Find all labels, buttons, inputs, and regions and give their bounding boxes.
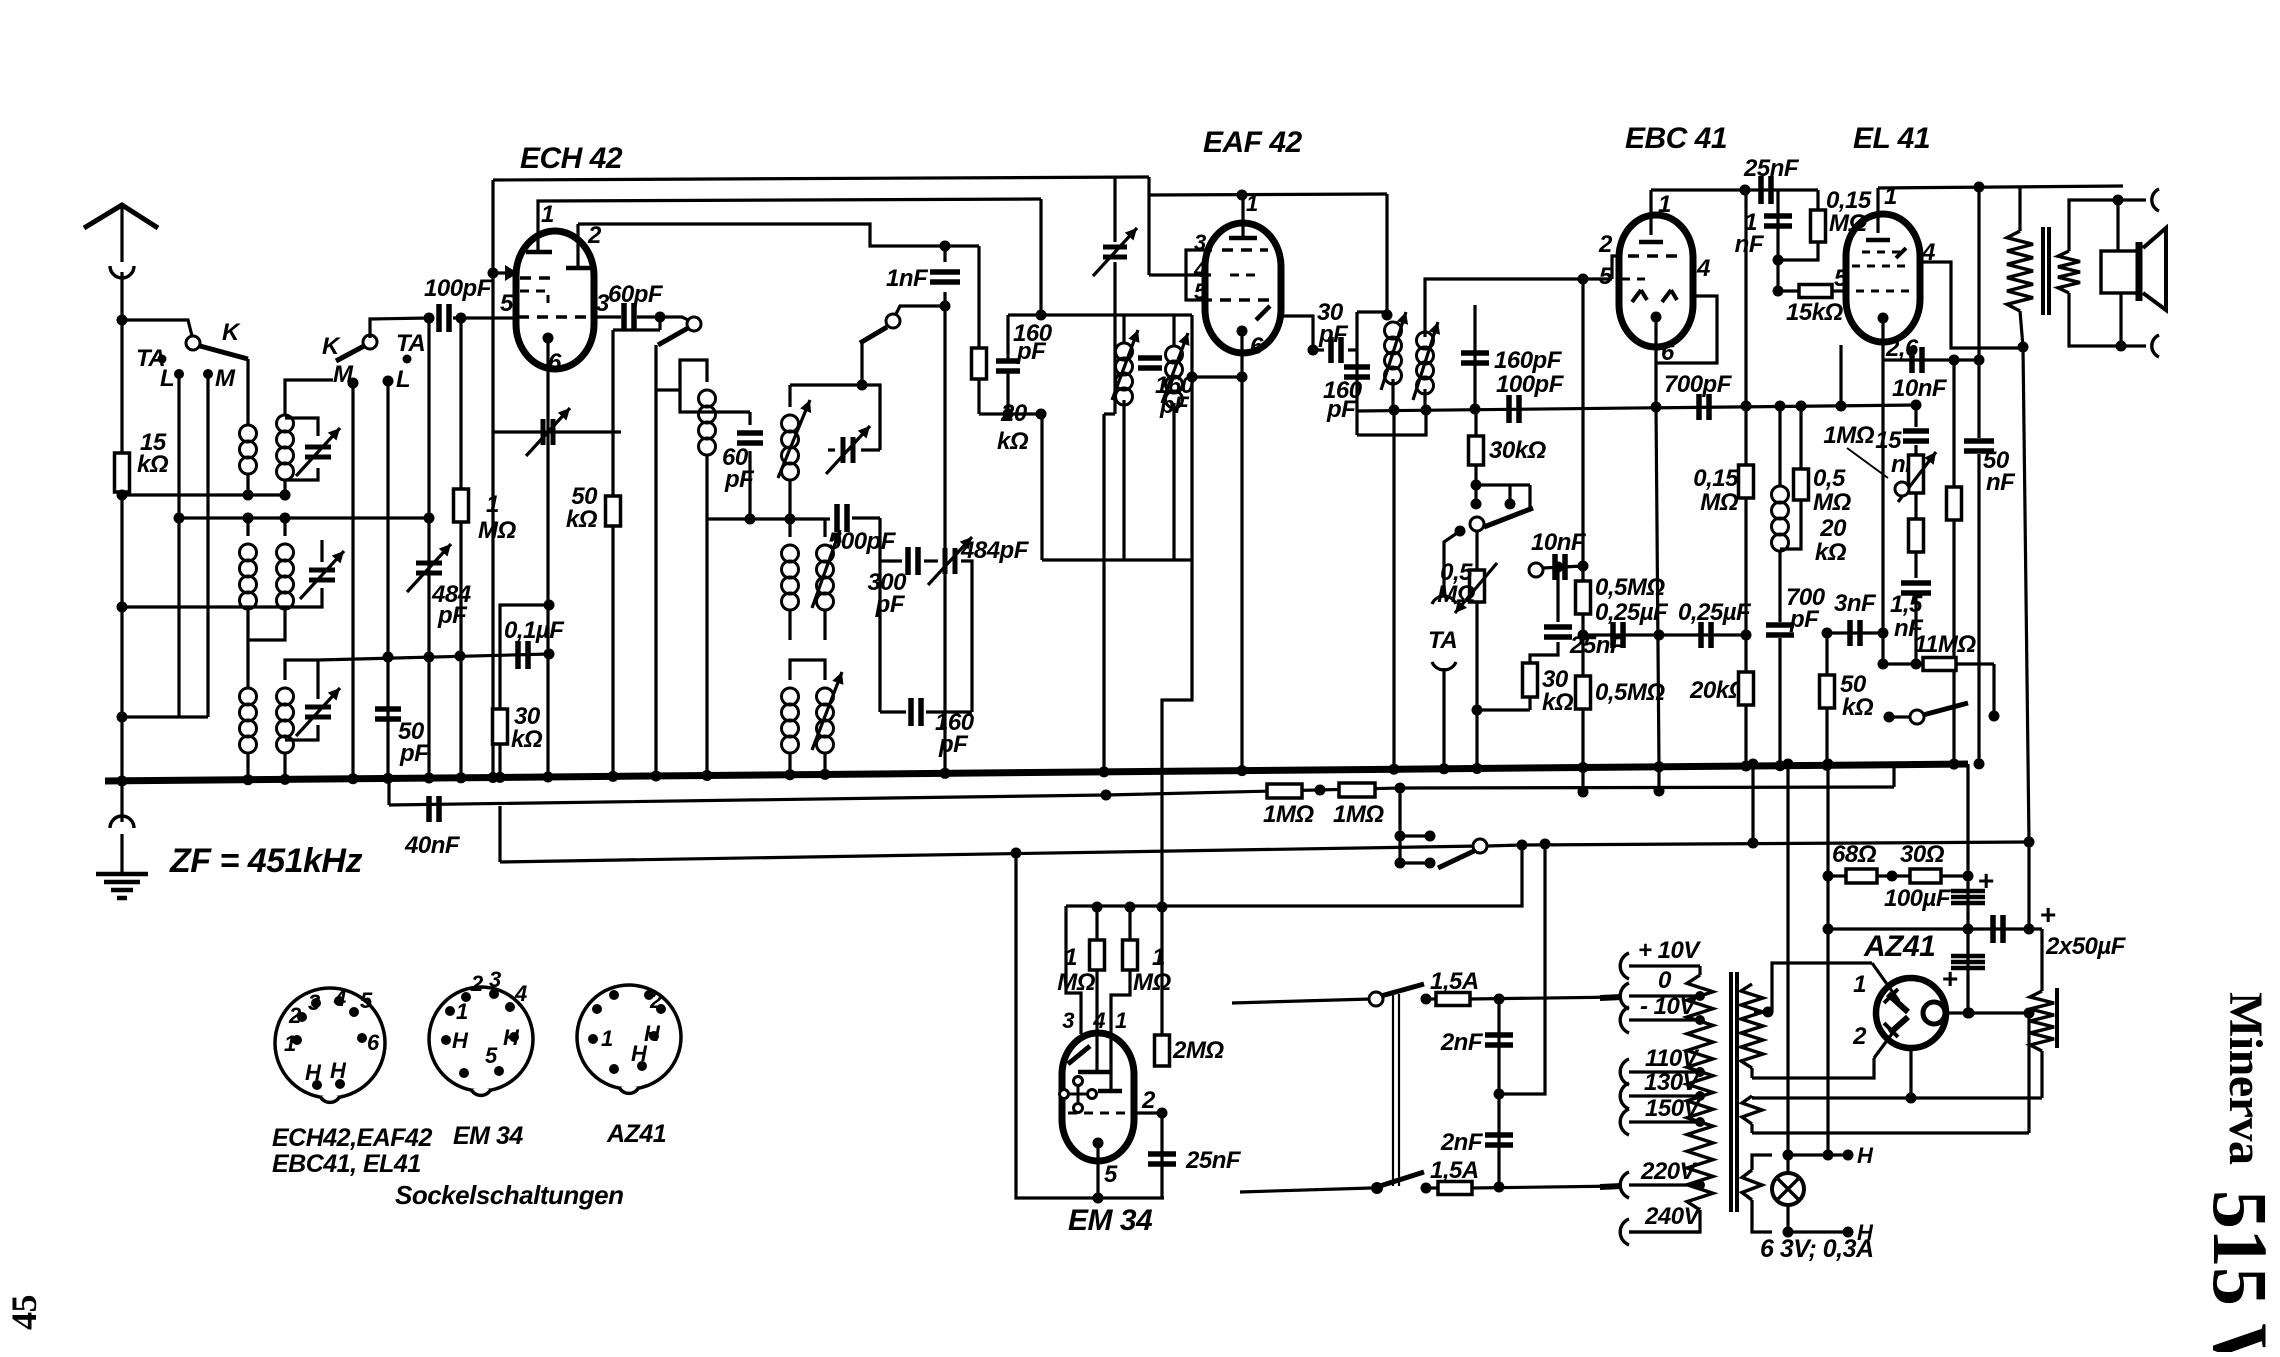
svg-text:pF: pF [1326,396,1357,423]
svg-text:kΩ: kΩ [1842,694,1874,721]
svg-text:+ 10V: + 10V [1638,937,1701,964]
svg-text:pF: pF [938,731,969,758]
svg-text:pF: pF [399,740,430,767]
svg-text:0,25µF: 0,25µF [1678,599,1752,626]
svg-text:6: 6 [548,349,562,376]
svg-text:AZ41: AZ41 [606,1120,666,1148]
svg-text:515 W: 515 W [2197,1190,2280,1352]
svg-text:30Ω: 30Ω [1900,841,1945,868]
svg-text:ECH42,EAF42: ECH42,EAF42 [272,1124,432,1152]
svg-text:1,5A: 1,5A [1430,1157,1479,1184]
svg-text:pF: pF [1789,606,1820,633]
svg-text:EBC 41: EBC 41 [1625,122,1727,155]
svg-text:2: 2 [1852,1023,1867,1050]
svg-text:- 10V: - 10V [1640,993,1697,1020]
svg-text:1: 1 [284,1031,296,1056]
svg-text:EM 34: EM 34 [1068,1204,1153,1237]
svg-text:MΩ: MΩ [1133,969,1171,996]
svg-text:20: 20 [1819,515,1847,542]
svg-text:110V: 110V [1645,1045,1700,1072]
svg-text:160pF: 160pF [1494,347,1563,374]
svg-text:1: 1 [1658,191,1671,218]
svg-text:1: 1 [456,999,468,1024]
svg-text:25nF: 25nF [1185,1147,1242,1174]
svg-text:3: 3 [489,967,501,992]
svg-text:100pF: 100pF [424,275,493,302]
svg-text:6: 6 [367,1030,380,1055]
svg-text:+: + [1978,865,1994,896]
svg-text:EBC41, EL41: EBC41, EL41 [272,1150,421,1178]
svg-text:11MΩ: 11MΩ [1914,631,1976,658]
svg-text:H: H [503,1025,520,1050]
svg-text:kΩ: kΩ [1542,689,1574,716]
svg-text:2: 2 [649,988,663,1013]
svg-text:3nF: 3nF [1834,590,1877,617]
svg-text:100µF: 100µF [1884,885,1952,912]
svg-text:1,5: 1,5 [1890,591,1923,618]
svg-text:L: L [396,366,410,393]
svg-text:4: 4 [514,981,527,1006]
svg-text:pF: pF [724,466,755,493]
svg-text:TA: TA [1428,627,1457,654]
svg-text:1MΩ: 1MΩ [1823,422,1874,449]
svg-text:1: 1 [1115,1008,1127,1033]
svg-text:40nF: 40nF [404,832,461,859]
svg-text:pF: pF [1016,338,1047,365]
svg-text:2nF: 2nF [1440,1129,1484,1156]
svg-text:45: 45 [4,1295,44,1330]
svg-text:5: 5 [485,1043,498,1068]
svg-text:kΩ: kΩ [137,451,169,478]
svg-text:6: 6 [1250,333,1264,360]
svg-text:5: 5 [500,290,514,317]
svg-text:150V: 150V [1645,1095,1702,1122]
svg-text:MΩ: MΩ [1813,489,1851,516]
svg-text:pF: pF [1159,392,1190,419]
svg-text:3: 3 [1062,1008,1074,1033]
svg-text:1: 1 [541,201,554,228]
svg-text:H: H [644,1021,661,1046]
svg-text:MΩ: MΩ [478,517,516,544]
svg-text:L: L [160,365,174,392]
svg-text:0,5MΩ: 0,5MΩ [1595,574,1665,601]
svg-text:Minerva: Minerva [2219,992,2272,1165]
svg-text:68Ω: 68Ω [1832,841,1877,868]
svg-text:AZ41: AZ41 [1863,930,1935,963]
svg-text:700pF: 700pF [1664,371,1733,398]
svg-text:2x50µF: 2x50µF [2045,933,2127,960]
svg-text:kΩ: kΩ [511,726,543,753]
svg-text:H: H [1857,1143,1874,1168]
svg-text:H: H [330,1058,347,1083]
svg-text:EM 34: EM 34 [453,1122,523,1150]
svg-text:kΩ: kΩ [997,428,1029,455]
svg-text:130V: 130V [1644,1069,1701,1096]
svg-text:0,5MΩ: 0,5MΩ [1595,679,1665,706]
svg-text:1nF: 1nF [886,265,929,292]
svg-text:0,5: 0,5 [1813,465,1846,492]
svg-text:1,5A: 1,5A [1430,968,1479,995]
svg-text:2nF: 2nF [1440,1029,1484,1056]
svg-text:Sockelschaltungen: Sockelschaltungen [395,1180,623,1210]
svg-text:EAF 42: EAF 42 [1203,126,1303,159]
svg-text:15kΩ: 15kΩ [1786,299,1844,326]
svg-text:K: K [222,319,241,346]
svg-text:60pF: 60pF [608,281,664,308]
svg-text:5: 5 [360,988,373,1013]
svg-text:H: H [631,1041,648,1066]
svg-text:2MΩ: 2MΩ [1172,1037,1224,1064]
svg-text:484pF: 484pF [960,537,1030,564]
svg-text:1: 1 [1246,191,1258,216]
svg-text:pF: pF [437,602,468,629]
svg-text:nF: nF [1986,469,2016,496]
svg-text:1: 1 [1853,971,1866,998]
svg-text:K: K [322,333,341,360]
svg-text:H: H [452,1028,469,1053]
svg-text:1MΩ: 1MΩ [1263,801,1314,828]
svg-text:EL 41: EL 41 [1853,122,1930,155]
svg-text:nF: nF [1735,231,1765,258]
svg-text:220V: 220V [1640,1158,1698,1185]
svg-text:6 3V; 0,3A: 6 3V; 0,3A [1760,1235,1874,1263]
svg-text:4: 4 [1696,255,1710,282]
svg-text:2: 2 [587,222,602,249]
svg-text:TA: TA [396,330,425,357]
svg-text:2: 2 [470,971,484,996]
svg-text:0,1µF: 0,1µF [504,617,565,644]
svg-text:3: 3 [308,990,320,1015]
svg-text:kΩ: kΩ [1815,539,1847,566]
svg-text:100pF: 100pF [1496,371,1565,398]
svg-text:0: 0 [1658,967,1672,994]
svg-text:ZF = 451kHz: ZF = 451kHz [169,842,362,880]
svg-text:ECH 42: ECH 42 [520,142,623,175]
svg-text:2: 2 [1598,231,1613,258]
svg-text:1MΩ: 1MΩ [1333,801,1384,828]
svg-text:25nF: 25nF [1743,155,1800,182]
svg-text:2: 2 [1141,1087,1156,1114]
svg-text:0,15: 0,15 [1693,465,1739,492]
svg-text:kΩ: kΩ [566,506,598,533]
svg-text:M: M [215,365,236,392]
svg-text:240V: 240V [1644,1203,1702,1230]
svg-text:+: + [2040,899,2056,930]
svg-text:30kΩ: 30kΩ [1489,437,1547,464]
svg-text:4: 4 [1092,1008,1105,1033]
svg-text:10nF: 10nF [1531,529,1587,556]
svg-text:4: 4 [333,986,346,1011]
svg-text:5: 5 [1104,1161,1118,1188]
svg-text:H: H [305,1060,322,1085]
svg-text:MΩ: MΩ [1700,489,1738,516]
svg-text:1: 1 [601,1026,613,1051]
svg-text:10nF: 10nF [1892,375,1948,402]
svg-text:15: 15 [1875,427,1902,454]
svg-text:2: 2 [288,1003,302,1028]
svg-text:+: + [1942,963,1958,994]
